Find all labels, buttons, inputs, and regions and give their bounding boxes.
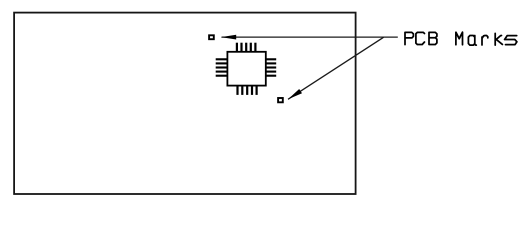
letter a	[468, 36, 476, 46]
IC right pins	[266, 59, 276, 75]
arrowhead of leader 2	[288, 89, 302, 99]
arrowhead of leader 1	[221, 35, 236, 40]
IC U1 body	[227, 52, 265, 86]
letter k	[495, 33, 502, 45]
letter C	[416, 32, 425, 44]
letter s	[505, 36, 517, 45]
fiducial mark 1 (top-left PCB mark)	[209, 35, 214, 39]
label "PCB Marks" (CAD stroke font)	[405, 32, 517, 45]
IC top pins	[237, 43, 256, 52]
letter r	[482, 36, 488, 46]
fiducial mark 2 (bottom-right PCB mark)	[278, 98, 283, 102]
letter M	[456, 32, 463, 45]
IC left pins	[216, 59, 228, 75]
letter B	[429, 32, 437, 44]
letter P	[405, 32, 413, 44]
board outline	[14, 13, 356, 194]
leader line to mark 2	[288, 37, 384, 99]
IC bottom pins	[238, 86, 257, 95]
leader line to mark 1	[222, 36, 398, 38]
